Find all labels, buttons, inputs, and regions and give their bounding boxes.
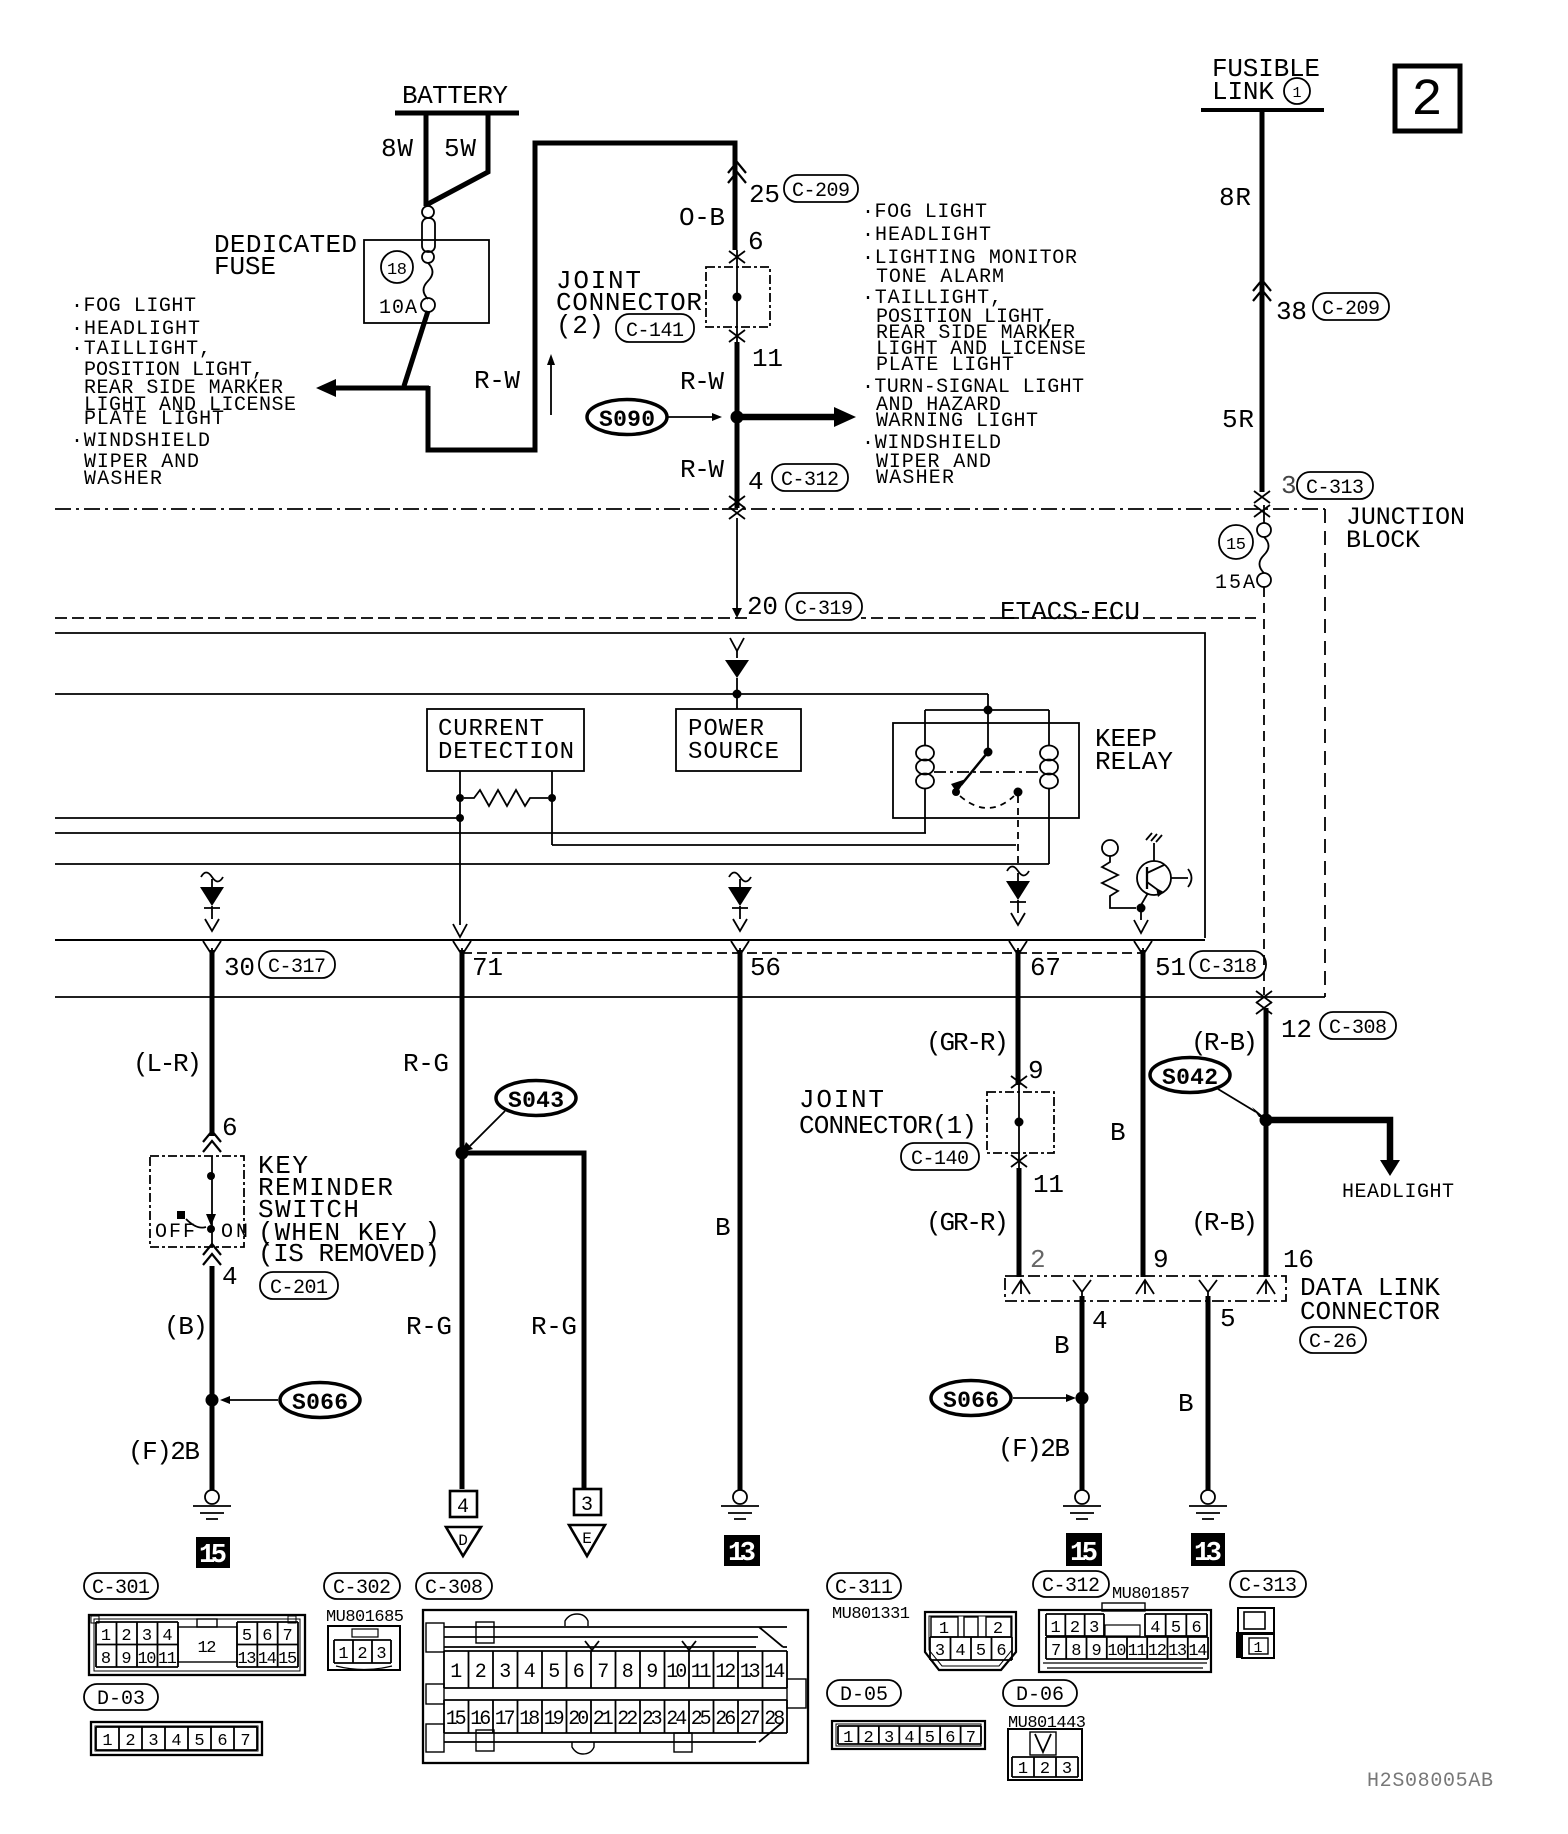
svg-text:C-26: C-26 (1309, 1331, 1357, 1354)
svg-text:·FOG LIGHT: ·FOG LIGHT (862, 201, 987, 224)
svg-text:HEADLIGHT: HEADLIGHT (1342, 1181, 1454, 1204)
terminal 56 tap (731, 941, 781, 983)
bus wire y864 (55, 863, 1049, 865)
svg-text:12: 12 (1148, 1642, 1167, 1661)
svg-text:8: 8 (101, 1650, 111, 1669)
wire R-W loop from battery to joint connector (428, 143, 735, 450)
svg-text:5: 5 (925, 1729, 935, 1748)
svg-text:20: 20 (747, 592, 778, 622)
svg-text:13: 13 (1168, 1642, 1187, 1661)
svg-text:8: 8 (622, 1661, 634, 1684)
fusible link 1 (1201, 54, 1324, 110)
svg-text:20: 20 (568, 1708, 589, 1731)
svg-text:H2S08005AB: H2S08005AB (1367, 1770, 1493, 1793)
key reminder switch label (258, 1151, 440, 1269)
svg-text:C-140: C-140 (911, 1148, 969, 1171)
svg-text:5: 5 (1171, 1619, 1181, 1638)
wire B data link pin 4 (1054, 1296, 1108, 1490)
connector D-03 pinout (84, 1684, 262, 1755)
connector C-201 (260, 1272, 338, 1300)
wire (GR-R) to data link pin 2 (926, 1168, 1046, 1277)
svg-text:1: 1 (450, 1661, 462, 1684)
svg-text:R-W: R-W (680, 455, 724, 485)
keep relay K1 (893, 694, 1173, 866)
reference arrow up (547, 354, 555, 415)
svg-text:2: 2 (125, 1732, 135, 1751)
svg-text:(F)2B: (F)2B (128, 1437, 200, 1467)
svg-text:3: 3 (142, 1627, 152, 1646)
svg-text:1: 1 (843, 1729, 853, 1748)
splice S090 (587, 400, 722, 435)
svg-text:C-302: C-302 (333, 1577, 391, 1600)
wire resistor right lead (551, 798, 553, 845)
svg-text:(F)2B: (F)2B (998, 1434, 1070, 1464)
wire (B) below switch (164, 1244, 238, 1490)
svg-text:1: 1 (102, 1732, 112, 1751)
svg-text:WASHER: WASHER (876, 467, 954, 490)
svg-text:11: 11 (691, 1661, 712, 1684)
bus wire y633 / ETACS-ECU box (55, 633, 1205, 938)
junction block label (1346, 503, 1465, 555)
svg-text:C-317: C-317 (268, 956, 326, 979)
svg-text:6: 6 (748, 227, 764, 257)
wire 20 into ETACS (729, 507, 745, 618)
svg-text:28: 28 (764, 1708, 785, 1731)
ground G1 (193, 1490, 231, 1519)
svg-text:15: 15 (1070, 1539, 1098, 1569)
svg-text:11: 11 (1128, 1642, 1147, 1661)
svg-text:11: 11 (1033, 1170, 1064, 1200)
terminal 67 tap (1009, 941, 1061, 983)
svg-text:24: 24 (666, 1708, 687, 1731)
svg-text:18: 18 (387, 261, 407, 280)
svg-text:S042: S042 (1162, 1065, 1218, 1091)
terminal 71 tap (453, 941, 503, 983)
wire B terminal 51 to pin 9 (1110, 950, 1169, 1277)
connector C-301 pinout (84, 1573, 305, 1675)
junction block border right (1324, 509, 1326, 997)
diode D2 to terminal 67 (1006, 867, 1030, 926)
svg-text:8W: 8W (381, 134, 413, 164)
svg-text:MU801857: MU801857 (1112, 1585, 1190, 1604)
svg-text:3: 3 (581, 1494, 593, 1517)
wire 8R fusible link feed (1219, 110, 1262, 492)
wire branch arrow to lights (737, 407, 856, 427)
svg-text:6: 6 (1192, 1619, 1202, 1638)
svg-text:R-G: R-G (403, 1049, 449, 1079)
svg-text:O-B: O-B (679, 203, 725, 233)
svg-text:10: 10 (666, 1661, 687, 1684)
svg-text:MU801443: MU801443 (1008, 1714, 1086, 1733)
svg-text:7: 7 (597, 1661, 609, 1684)
svg-text:4: 4 (162, 1627, 172, 1646)
svg-text:·TAILLIGHT,: ·TAILLIGHT, (71, 338, 211, 361)
svg-text:22: 22 (617, 1708, 638, 1731)
svg-text:25: 25 (749, 180, 780, 210)
transistor Q1 output driver (1102, 833, 1192, 933)
ground G3 (1063, 1490, 1101, 1519)
svg-text:4: 4 (1150, 1619, 1160, 1638)
svg-text:BATTERY: BATTERY (402, 81, 508, 111)
svg-text:B: B (1054, 1331, 1070, 1361)
svg-text:TONE ALARM: TONE ALARM (876, 266, 1004, 289)
svg-text:C-312: C-312 (781, 469, 839, 492)
svg-text:3: 3 (935, 1642, 945, 1661)
connector mark 38 C-209 (1253, 280, 1389, 327)
svg-text:26: 26 (715, 1708, 736, 1731)
wire (R-B) to pin 16 (1191, 1008, 1314, 1277)
svg-text:11: 11 (158, 1650, 177, 1669)
ground G4 (1189, 1490, 1227, 1519)
connector 3 to E (569, 1489, 605, 1556)
wire (GR-R) terminal 67 (926, 950, 1044, 1086)
wire current detection left lead (453, 798, 467, 937)
svg-text:6: 6 (996, 1642, 1006, 1661)
svg-text:D-03: D-03 (97, 1688, 145, 1711)
connector mark 20 C-319 (747, 592, 862, 622)
bus wire power rail y694 (55, 693, 988, 695)
svg-text:C-209: C-209 (792, 180, 850, 203)
svg-text:·WINDSHIELD: ·WINDSHIELD (71, 430, 210, 453)
svg-text:1: 1 (338, 1645, 348, 1664)
svg-text:MU801331: MU801331 (832, 1605, 910, 1624)
wire 8W battery feed (381, 111, 426, 206)
terminal 30 C-317 tap (203, 941, 335, 983)
svg-text:13: 13 (740, 1661, 761, 1684)
svg-text:4: 4 (748, 467, 764, 497)
connector C-308 pinout (416, 1573, 808, 1763)
junction block border top (55, 508, 1325, 510)
svg-text:14: 14 (1188, 1642, 1207, 1661)
connector 4 to D (446, 1491, 481, 1556)
svg-text:WASHER: WASHER (84, 468, 162, 491)
diode D3 to terminal 30 (200, 873, 224, 932)
svg-text:1: 1 (1292, 85, 1301, 102)
bus wire y818 (55, 817, 460, 819)
data link connector C-26 (1005, 1273, 1440, 1354)
dedicated fuse 18 10A (214, 206, 489, 323)
svg-text:R-G: R-G (531, 1312, 577, 1342)
svg-text:6: 6 (262, 1627, 272, 1646)
svg-text:PLATE LIGHT: PLATE LIGHT (84, 408, 224, 431)
svg-text:2: 2 (1030, 1245, 1046, 1275)
connector C-311 pinout (827, 1573, 1016, 1670)
svg-text:23: 23 (642, 1708, 663, 1731)
svg-text:9: 9 (1028, 1056, 1044, 1086)
svg-text:2: 2 (1040, 1760, 1050, 1779)
svg-text:7: 7 (240, 1732, 250, 1751)
wire from fuse to lights (arrow) (316, 311, 429, 397)
bus wire y833 (55, 832, 926, 834)
svg-text:C-312: C-312 (1042, 1575, 1100, 1598)
svg-text:(R-B): (R-B) (1191, 1208, 1258, 1238)
svg-text:7: 7 (283, 1627, 293, 1646)
svg-text:1: 1 (1253, 1640, 1262, 1657)
connector C-312 pinout (1033, 1571, 1211, 1672)
svg-text:4: 4 (955, 1642, 965, 1661)
svg-text:6: 6 (573, 1661, 585, 1684)
svg-text:9: 9 (646, 1661, 658, 1684)
resistor R1 current detection shunt (456, 771, 556, 806)
svg-text:19: 19 (544, 1708, 565, 1731)
svg-text:15A: 15A (1215, 572, 1255, 595)
svg-text:9: 9 (1153, 1245, 1169, 1275)
sheet ref 13 black right (1191, 1533, 1225, 1569)
wire 5W battery feed (428, 111, 488, 204)
svg-text:C-201: C-201 (270, 1277, 328, 1300)
svg-text:(IS REMOVED): (IS REMOVED) (258, 1239, 440, 1269)
connector C-313 pinout (1230, 1571, 1306, 1658)
svg-text:·HEADLIGHT: ·HEADLIGHT (862, 224, 991, 247)
svg-text:9: 9 (121, 1650, 131, 1669)
svg-text:4: 4 (457, 1496, 469, 1519)
connector D-05 pinout (827, 1680, 985, 1749)
svg-text:5: 5 (242, 1627, 252, 1646)
svg-text:B: B (1110, 1118, 1126, 1148)
load list left (71, 295, 296, 491)
svg-text:10: 10 (1107, 1642, 1126, 1661)
svg-text:38: 38 (1276, 297, 1307, 327)
svg-text:CONNECTOR: CONNECTOR (1300, 1297, 1440, 1327)
svg-text:2: 2 (121, 1627, 131, 1646)
wire R-G branch to E (462, 1153, 584, 1489)
svg-text:B: B (1178, 1389, 1194, 1419)
splice S042 (1150, 1058, 1273, 1127)
svg-text:4: 4 (1092, 1306, 1108, 1336)
svg-text:6: 6 (222, 1113, 238, 1143)
svg-text:1: 1 (101, 1627, 111, 1646)
svg-text:2: 2 (357, 1645, 367, 1664)
svg-text:21: 21 (593, 1708, 614, 1731)
wire fuse15 to C-308 (dashed) (1263, 587, 1265, 995)
svg-text:2: 2 (863, 1729, 873, 1748)
connector D-06 pinout (1003, 1680, 1086, 1780)
svg-text:D: D (458, 1532, 468, 1550)
wire (L-R) terminal 30 (133, 950, 238, 1152)
terminal 51 C-318 tap (1134, 941, 1266, 983)
joint connector U2 (C-141) (556, 250, 783, 374)
svg-text:S066: S066 (943, 1388, 999, 1414)
svg-text:15: 15 (1226, 536, 1246, 555)
svg-text:15: 15 (199, 1541, 227, 1571)
svg-text:FUSE: FUSE (214, 252, 276, 282)
svg-text:3: 3 (499, 1661, 511, 1684)
svg-text:5: 5 (1220, 1304, 1236, 1334)
svg-text:10: 10 (138, 1650, 157, 1669)
svg-text:17: 17 (495, 1708, 516, 1731)
connector C-302 pinout (324, 1573, 404, 1670)
svg-text:2: 2 (1070, 1619, 1080, 1638)
bus wire y940 ETACS bottom (55, 939, 1205, 941)
sheet ref 15 black (196, 1537, 230, 1571)
wire branch arrow to headlight (1266, 1120, 1454, 1204)
svg-text:B: B (715, 1213, 731, 1243)
svg-text:(L-R): (L-R) (133, 1049, 202, 1079)
bus wire dashed y618 (55, 617, 1256, 619)
svg-text:12: 12 (1281, 1015, 1312, 1045)
svg-text:13: 13 (1194, 1539, 1222, 1569)
svg-text:(GR-R): (GR-R) (926, 1208, 1009, 1238)
connector mark 3 C-313 (1254, 471, 1373, 517)
svg-text:1: 1 (1018, 1760, 1028, 1779)
fuse 15 15A in junction block (1215, 505, 1271, 595)
svg-text:12: 12 (715, 1661, 736, 1684)
svg-text:14: 14 (764, 1661, 785, 1684)
svg-text:3: 3 (884, 1729, 894, 1748)
svg-text:5R: 5R (1222, 405, 1254, 435)
wire R-G terminal 71 (403, 950, 462, 1489)
svg-text:5: 5 (976, 1642, 986, 1661)
svg-text:MU801685: MU801685 (326, 1608, 404, 1627)
svg-text:9: 9 (1091, 1642, 1101, 1661)
svg-text:1: 1 (1050, 1619, 1060, 1638)
svg-text:27: 27 (740, 1708, 761, 1731)
svg-text:10A: 10A (379, 297, 417, 320)
wire relay contact bus y845 (552, 844, 1016, 846)
svg-text:C-308: C-308 (425, 1577, 483, 1600)
svg-text:R-W: R-W (474, 366, 520, 396)
current detection block (427, 709, 584, 771)
svg-text:D-05: D-05 (840, 1684, 888, 1707)
svg-text:3: 3 (148, 1732, 158, 1751)
svg-text:18: 18 (519, 1708, 540, 1731)
svg-text:(GR-R): (GR-R) (926, 1028, 1009, 1058)
svg-text:11: 11 (752, 344, 783, 374)
svg-text:51: 51 (1155, 953, 1186, 983)
svg-text:7: 7 (1051, 1642, 1061, 1661)
svg-text:C-319: C-319 (795, 598, 853, 621)
svg-text:D-06: D-06 (1016, 1684, 1064, 1707)
svg-text:4: 4 (524, 1661, 536, 1684)
svg-text:RELAY: RELAY (1095, 747, 1173, 777)
diode D4 to terminal 56 (728, 873, 752, 932)
svg-text:16: 16 (1283, 1245, 1314, 1275)
svg-text:5W: 5W (444, 134, 476, 164)
svg-text:C-313: C-313 (1306, 477, 1364, 500)
splice S066 right (931, 1381, 1089, 1416)
svg-text:15: 15 (278, 1650, 297, 1669)
svg-text:C-301: C-301 (92, 1577, 150, 1600)
svg-text:2: 2 (475, 1661, 487, 1684)
svg-text:71: 71 (472, 953, 503, 983)
splice S043 (456, 1081, 577, 1160)
sheet ref 15 black right (1066, 1533, 1102, 1569)
svg-text:ETACS-ECU: ETACS-ECU (1000, 597, 1140, 627)
svg-text:S043: S043 (508, 1088, 564, 1114)
svg-text:4: 4 (171, 1732, 181, 1751)
svg-text:5: 5 (194, 1732, 204, 1751)
svg-text:CONNECTOR(1): CONNECTOR(1) (799, 1111, 977, 1141)
svg-text:R-W: R-W (680, 367, 724, 397)
svg-text:S066: S066 (292, 1390, 348, 1416)
svg-text:25: 25 (691, 1708, 712, 1731)
battery B1 (395, 81, 519, 113)
svg-text:56: 56 (750, 953, 781, 983)
svg-text:30: 30 (224, 953, 255, 983)
svg-text:C-308: C-308 (1329, 1017, 1387, 1040)
svg-text:WARNING LIGHT: WARNING LIGHT (876, 410, 1038, 433)
joint connector U3 (C-140) (799, 1076, 1064, 1200)
svg-text:8R: 8R (1219, 183, 1251, 213)
wire R-W to junction block (680, 342, 737, 508)
svg-text:(2): (2) (556, 311, 604, 341)
splice S066 left (206, 1383, 361, 1418)
svg-text:C-313: C-313 (1239, 1575, 1297, 1598)
svg-text:16: 16 (470, 1708, 491, 1731)
wire B data link pin 5 (1178, 1296, 1236, 1490)
diode D1 power input (725, 638, 749, 709)
svg-text:C-141: C-141 (626, 320, 684, 343)
svg-text:·FOG LIGHT: ·FOG LIGHT (71, 295, 196, 318)
svg-text:PLATE LIGHT: PLATE LIGHT (876, 354, 1014, 377)
svg-text:R-G: R-G (406, 1312, 452, 1342)
bus wire dashed y953 (462, 952, 1143, 954)
svg-text:C-318: C-318 (1199, 956, 1257, 979)
sheet ref 13 black (724, 1535, 760, 1569)
svg-text:14: 14 (258, 1650, 277, 1669)
power source block (676, 709, 801, 771)
node S090 junction (731, 411, 744, 424)
svg-text:DETECTION: DETECTION (438, 739, 574, 766)
svg-text:OFF: OFF (155, 1221, 195, 1244)
svg-text:6: 6 (945, 1729, 955, 1748)
svg-text:12: 12 (198, 1639, 217, 1658)
svg-text:(B): (B) (164, 1312, 208, 1342)
page number 2 (1395, 66, 1460, 131)
connector mark 4 C-312 (729, 464, 848, 508)
svg-text:BLOCK: BLOCK (1346, 526, 1420, 555)
connector mark 12 C-308 (1256, 991, 1396, 1045)
svg-text:SOURCE: SOURCE (688, 739, 779, 766)
svg-text:3: 3 (376, 1645, 386, 1664)
svg-text:6: 6 (217, 1732, 227, 1751)
wire B terminal 56 (715, 950, 740, 1490)
ground G2 (721, 1490, 759, 1519)
svg-text:3: 3 (1089, 1619, 1099, 1638)
svg-text:7: 7 (966, 1729, 976, 1748)
svg-text:4: 4 (904, 1729, 914, 1748)
svg-text:8: 8 (1071, 1642, 1081, 1661)
svg-text:S090: S090 (599, 407, 655, 433)
connector mark 25 C-209 (728, 162, 858, 210)
svg-text:LINK: LINK (1212, 77, 1274, 107)
svg-text:4: 4 (222, 1262, 238, 1292)
svg-text:E: E (582, 1530, 592, 1548)
svg-text:67: 67 (1030, 953, 1061, 983)
node power rail junction (733, 690, 742, 699)
bus wire y997 junction block bottom (55, 996, 1325, 998)
key reminder switch SW1 (150, 1156, 248, 1247)
svg-text:13: 13 (728, 1539, 756, 1569)
svg-text:C-209: C-209 (1322, 298, 1380, 321)
svg-text:2: 2 (1411, 71, 1442, 130)
svg-text:5: 5 (548, 1661, 560, 1684)
svg-text:C-311: C-311 (835, 1577, 893, 1600)
svg-text:3: 3 (1281, 471, 1297, 501)
svg-text:13: 13 (238, 1650, 257, 1669)
svg-text:(R-B): (R-B) (1191, 1028, 1258, 1058)
svg-text:3: 3 (1062, 1760, 1072, 1779)
load list right (862, 201, 1086, 490)
svg-text:15: 15 (446, 1708, 467, 1731)
